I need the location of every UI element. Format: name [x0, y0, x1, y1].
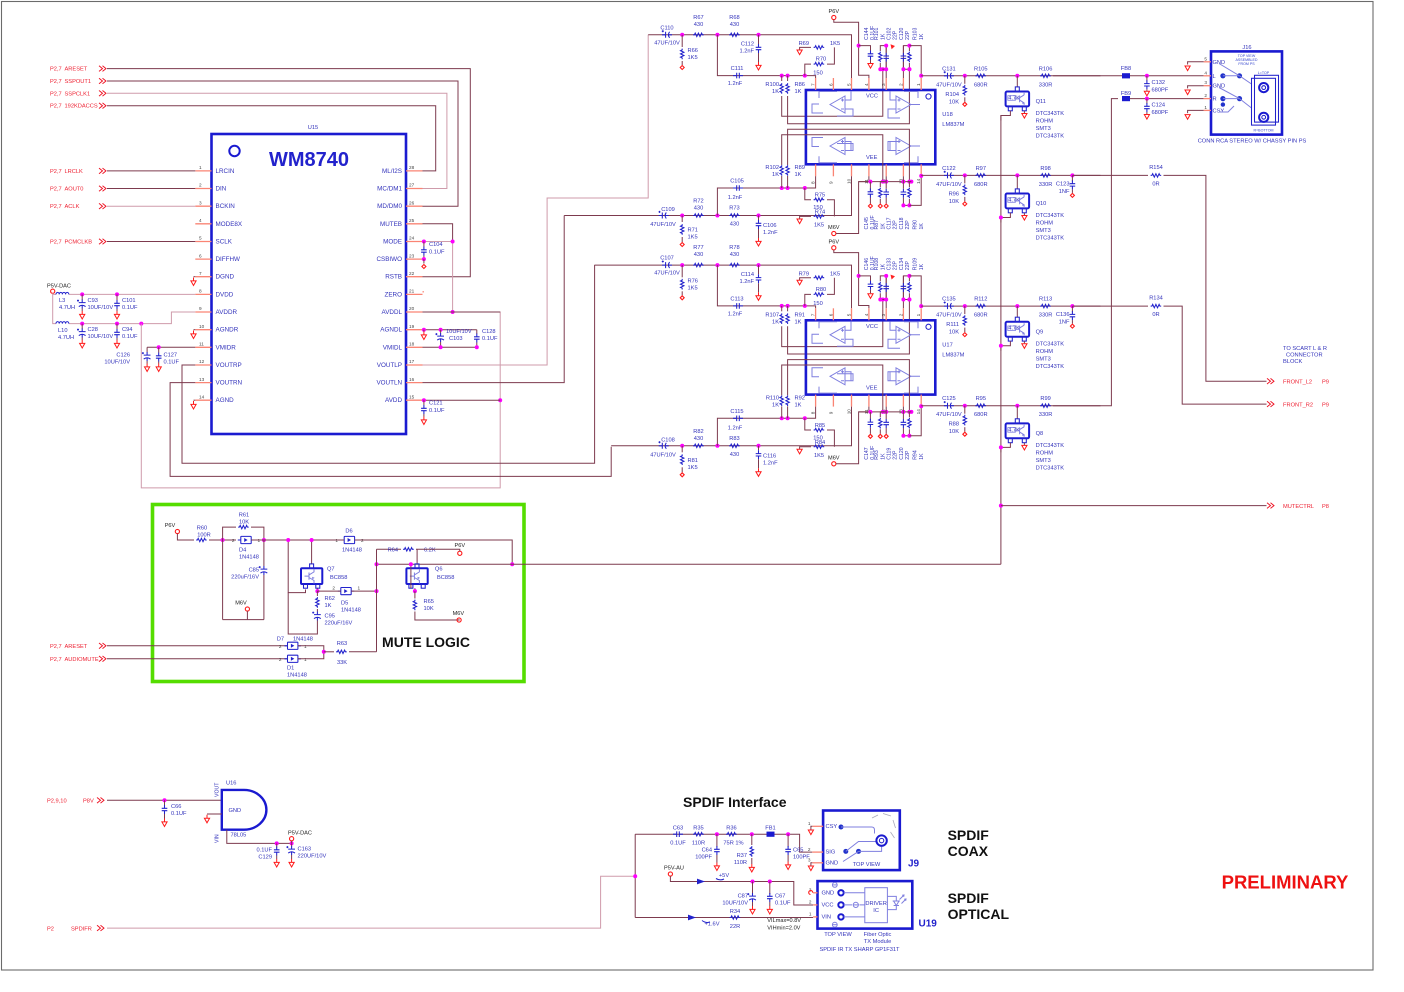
capacitor C125 47UF/10V [944, 403, 954, 409]
resistor R88 10K [964, 406, 966, 414]
svg-text:R82: R82 [693, 429, 703, 435]
svg-text:VEE: VEE [866, 155, 878, 161]
svg-text:MC/DM1: MC/DM1 [377, 186, 402, 193]
resistor R97 680R [975, 174, 986, 177]
svg-text:1K: 1K [772, 402, 779, 408]
svg-text:VILmax=0.8V: VILmax=0.8V [767, 918, 801, 924]
junction [757, 214, 761, 218]
transistor Q9 DTC343TK [1016, 306, 1018, 317]
svg-text:680R: 680R [974, 412, 988, 418]
wire ACLK to U15 [107, 205, 195, 207]
svg-text:14: 14 [916, 409, 921, 415]
svg-text:1: 1 [808, 821, 811, 826]
svg-text:P5V-DAC: P5V-DAC [47, 284, 71, 290]
svg-text:7: 7 [199, 271, 202, 276]
resistor R86 1K [787, 76, 789, 81]
wire VOUTRP pin12 to C107 network [182, 265, 595, 463]
svg-text:R104: R104 [945, 92, 959, 98]
junction [680, 263, 684, 267]
svg-text:1: 1 [916, 83, 921, 86]
svg-text:680R: 680R [974, 82, 988, 88]
svg-text:10K: 10K [949, 429, 959, 435]
resistor R72 430 [693, 214, 704, 217]
diode D5 1N4148 [341, 588, 351, 595]
capacitor C67 0.1UF [769, 882, 771, 895]
junction [80, 292, 84, 296]
svg-text:0.1UF: 0.1UF [164, 360, 180, 366]
svg-text:47UF/10V: 47UF/10V [936, 82, 962, 88]
capacitor C147 0.1UF [868, 410, 872, 414]
svg-text:R98: R98 [1040, 166, 1050, 172]
svg-text:TOP VIEW: TOP VIEW [824, 932, 852, 938]
J9 RCA jack [876, 835, 886, 845]
svg-text:R90: R90 [912, 220, 918, 230]
ground arrow AGND pin14 [194, 399, 196, 401]
capacitor C106 1.2nF [758, 216, 760, 221]
svg-text:6: 6 [828, 313, 833, 316]
svg-text:2: 2 [332, 586, 335, 591]
svg-text:R100: R100 [765, 82, 779, 88]
capacitor C107 47UF/10V [662, 262, 672, 268]
svg-text:R111: R111 [946, 322, 959, 328]
svg-text:LRCIN: LRCIN [216, 168, 235, 175]
J16 internal contacts [1220, 73, 1225, 78]
Q10 emitter ground arrow [1023, 213, 1025, 215]
resistor R35 110R [693, 833, 704, 836]
capacitor C129 0.1UF [276, 843, 278, 847]
svg-text:VCC: VCC [866, 324, 878, 330]
resistor R101 1K with capacitor C102 22P (pin3 feedback) [880, 46, 886, 78]
svg-text:DGND: DGND [216, 274, 235, 281]
svg-text:24: 24 [409, 236, 415, 241]
junction [715, 214, 719, 218]
junction [115, 292, 119, 296]
svg-text:C134: C134 [899, 258, 905, 271]
wire ARESET to D7 [107, 645, 288, 647]
svg-text:1K: 1K [919, 33, 925, 40]
capacitor C134 22P with resistor R109 1K (pin2 feedback) [903, 276, 909, 308]
wire Q6 collector to mute line [410, 564, 412, 588]
svg-text:TOP VIEW: TOP VIEW [853, 862, 881, 868]
svg-text:1: 1 [916, 313, 921, 316]
J16 RCA jack L [1259, 83, 1268, 92]
svg-text:LRCLK: LRCLK [65, 169, 84, 175]
capacitor C123 1NF [1071, 175, 1073, 181]
svg-text:22R: 22R [730, 924, 740, 930]
svg-text:R134: R134 [1149, 296, 1163, 302]
U17 pin 2 stub [902, 308, 904, 320]
svg-text:U17: U17 [942, 342, 952, 348]
svg-text:R103: R103 [912, 27, 918, 40]
svg-text:P6V: P6V [455, 543, 466, 549]
svg-text:47UF/10V: 47UF/10V [654, 40, 680, 46]
svg-text:R62: R62 [325, 596, 335, 602]
svg-text:330R: 330R [1039, 182, 1053, 188]
svg-text:MUTEB: MUTEB [380, 221, 402, 228]
svg-text:C106: C106 [763, 223, 777, 229]
svg-text:0.1UF: 0.1UF [482, 336, 498, 342]
svg-text:P9: P9 [1322, 402, 1329, 408]
svg-text:FRONT_L2: FRONT_L2 [1283, 379, 1312, 385]
op-amp C triangle [830, 368, 845, 385]
U15 pin 8 DVDD [195, 293, 211, 295]
svg-text:1.2nF: 1.2nF [763, 460, 778, 466]
svg-text:1: 1 [304, 644, 307, 649]
svg-text:1.2nF: 1.2nF [739, 279, 754, 285]
svg-text:ARESET: ARESET [65, 644, 88, 650]
svg-text:22P: 22P [892, 450, 898, 460]
svg-text:2: 2 [898, 83, 903, 86]
J9 pin 3 GND [812, 862, 823, 864]
J9 pin1 ground hook [811, 826, 812, 829]
U17 pin 14 stub [920, 395, 922, 407]
svg-text:R35: R35 [693, 826, 703, 832]
svg-text:VMIDL: VMIDL [383, 344, 403, 351]
svg-text:10: 10 [199, 324, 205, 329]
transistor Q10 DTC343TK [1016, 175, 1018, 189]
U18 pin 5 stub [851, 78, 853, 90]
svg-text:330R: 330R [1039, 313, 1053, 319]
svg-text:Fiber Optic: Fiber Optic [864, 932, 892, 938]
svg-text:16: 16 [409, 377, 415, 382]
U17 pin 6 stub [832, 308, 834, 320]
wire AVDD return rail [141, 312, 500, 488]
svg-text:2: 2 [808, 847, 811, 852]
svg-text:R154: R154 [1149, 165, 1163, 171]
svg-text:VOUT: VOUT [214, 782, 220, 797]
svg-text:P2,7: P2,7 [50, 67, 62, 73]
junction [498, 398, 502, 402]
svg-text:J9: J9 [908, 859, 920, 870]
svg-text:GND: GND [826, 860, 839, 866]
svg-text:M6V: M6V [828, 455, 840, 461]
inductor L3 4.7UH [56, 292, 69, 294]
svg-text:R79: R79 [799, 271, 809, 277]
U15 pin 19 AGNDL [406, 329, 423, 331]
svg-text:AGND: AGND [216, 397, 235, 404]
svg-text:U19: U19 [919, 919, 938, 930]
wire CSBIWO pin23 [423, 258, 424, 260]
svg-text:P2,7: P2,7 [50, 644, 62, 650]
U15 pin 13 VOUTRN [195, 382, 211, 384]
svg-text:0.1UF: 0.1UF [429, 408, 445, 414]
resistor R63 33K [324, 651, 334, 653]
U17 pin 11 stub [868, 395, 870, 407]
svg-text:R: R [1213, 97, 1217, 103]
U17 pin 9 stub [832, 395, 834, 407]
wire R63 riser [376, 549, 378, 652]
wire R154 to FRONT_L2 [1164, 175, 1267, 381]
resistor R108 1K with capacitor C133 22P (pin3 feedback) [880, 276, 886, 308]
capacitor C132 680PF [1146, 76, 1148, 82]
svg-text:D6: D6 [345, 529, 352, 535]
svg-text:C121: C121 [429, 401, 443, 407]
junction [963, 304, 967, 308]
svg-text:1.2nF: 1.2nF [763, 230, 778, 236]
junction [963, 173, 967, 177]
capacitor C120 22P with resistor R103 1K (pin2 feedback) [903, 46, 909, 78]
svg-text:RSTB: RSTB [385, 274, 402, 281]
wire SSPCLK1 to MC/DM1 pin27 [107, 93, 447, 188]
svg-text:430: 430 [694, 436, 704, 442]
svg-text:25: 25 [409, 218, 415, 223]
J16 pin 4 L [1204, 75, 1211, 77]
svg-text:C65: C65 [793, 848, 803, 854]
svg-text:R83: R83 [729, 436, 739, 442]
U18 pin 10 stub [851, 164, 853, 176]
Q11 base wire to mute bus [1001, 111, 1011, 121]
svg-text:R106: R106 [1039, 66, 1053, 72]
transistor Q8 DTC343TK [1016, 406, 1018, 419]
resistor R78 430 [729, 263, 740, 266]
svg-text:C102: C102 [886, 27, 892, 40]
svg-text:C63: C63 [673, 826, 683, 832]
svg-text:1.2nF: 1.2nF [728, 195, 743, 201]
svg-text:22: 22 [409, 271, 415, 276]
svg-text:P2,7: P2,7 [50, 91, 62, 97]
svg-text:P5V-DAC: P5V-DAC [288, 831, 312, 837]
junction [963, 74, 967, 78]
svg-text:9: 9 [828, 411, 833, 414]
capacitor C121 0.1UF [423, 400, 425, 405]
capacitor C115 1.2nF [733, 416, 743, 422]
capacitor C87 10UF/10V [752, 882, 754, 894]
junction [963, 404, 967, 408]
svg-text:2: 2 [809, 900, 812, 905]
svg-text:C116: C116 [763, 453, 776, 459]
U15 pin 22 RSTB [406, 276, 423, 278]
U17 pin 4 stub [868, 308, 870, 320]
svg-text:47UF/10V: 47UF/10V [654, 271, 680, 277]
U15 pin 9 AVDDR [195, 311, 211, 313]
svg-text:MUTECTRL: MUTECTRL [1283, 504, 1314, 510]
U18 pin 13 stub [902, 164, 904, 176]
svg-text:10UF/10V: 10UF/10V [722, 901, 748, 907]
capacitor C95 220uF/16V [314, 612, 321, 621]
svg-text:2: 2 [279, 657, 282, 662]
wire P5V-DAC rail DVDD [53, 293, 56, 294]
svg-text:1: 1 [358, 586, 361, 591]
svg-text:C110: C110 [660, 25, 673, 31]
svg-text:SPDIF: SPDIF [948, 890, 990, 906]
svg-text:430: 430 [730, 252, 740, 258]
svg-text:CSY: CSY [826, 824, 838, 830]
svg-text:C28: C28 [88, 327, 98, 333]
svg-text:1: 1 [304, 657, 307, 662]
svg-text:4.7UH: 4.7UH [59, 305, 75, 311]
resistor R73 430 [729, 214, 740, 217]
svg-text:Q10: Q10 [1036, 201, 1047, 207]
svg-text:D7: D7 [277, 637, 284, 643]
wire R61 node down [222, 540, 224, 620]
svg-text:R89: R89 [795, 165, 805, 171]
svg-text:1K5: 1K5 [830, 41, 840, 47]
wire rail1 to FB8 [1053, 75, 1122, 77]
op-amp B triangle [896, 96, 911, 113]
svg-text:BCKIN: BCKIN [216, 203, 236, 210]
resistor R107 1K [781, 306, 783, 311]
svg-text:6: 6 [199, 253, 202, 258]
svg-text:SPDIF: SPDIF [948, 827, 990, 843]
svg-text:100R: 100R [197, 533, 211, 539]
svg-text:18: 18 [409, 342, 415, 347]
svg-text:R78: R78 [729, 245, 739, 251]
svg-text:100PF: 100PF [695, 855, 712, 861]
svg-text:430: 430 [694, 22, 704, 28]
signal arrow +5V [697, 879, 705, 885]
U15 pin 7 DGND [195, 276, 211, 278]
resistor R66 1K5 [681, 35, 683, 47]
svg-text:DTC343TK: DTC343TK [1036, 341, 1065, 347]
svg-text:R92: R92 [795, 395, 805, 401]
svg-text:L=TOP: L=TOP [1258, 71, 1270, 75]
svg-text:R81: R81 [688, 458, 698, 464]
svg-text:10UF/10V: 10UF/10V [88, 334, 114, 340]
svg-text:C127: C127 [164, 353, 178, 359]
U15 pin 2 DIN [195, 188, 211, 190]
svg-text:ROHM: ROHM [1036, 221, 1054, 227]
svg-text:C122: C122 [942, 166, 956, 172]
U18 pin 7 stub [815, 78, 817, 90]
svg-text:C129: C129 [258, 855, 272, 861]
svg-text:R110: R110 [766, 395, 779, 401]
svg-text:C64: C64 [702, 848, 712, 854]
U19 pin3 hook [809, 891, 813, 895]
svg-text:VOUTLN: VOUTLN [376, 380, 402, 387]
svg-text:8: 8 [199, 289, 202, 294]
svg-text:33K: 33K [337, 660, 347, 666]
svg-text:0.1UF: 0.1UF [429, 250, 445, 256]
junction [680, 214, 684, 218]
svg-text:P5V-AU: P5V-AU [664, 866, 684, 872]
svg-text:4: 4 [864, 83, 869, 86]
capacitor C120 22P with resistor R94 1K (pin13 feedback) [901, 410, 905, 414]
svg-text:C66: C66 [171, 804, 181, 810]
svg-text:22P: 22P [892, 220, 898, 230]
svg-text:15: 15 [409, 394, 415, 399]
junction [715, 263, 719, 267]
svg-text:C117: C117 [886, 217, 892, 229]
svg-text:330R: 330R [1039, 412, 1053, 418]
svg-text:C103: C103 [449, 336, 463, 342]
U18 pin 3 stub [885, 78, 887, 90]
capacitor C128 0.1UF [476, 330, 478, 334]
svg-text:4: 4 [199, 218, 202, 223]
svg-text:GND: GND [229, 808, 242, 814]
svg-text:P9: P9 [1322, 379, 1329, 385]
capacitor C109 47UF/10V [659, 213, 669, 219]
capacitor C28 10UF/10V [81, 324, 83, 329]
svg-text:680PF: 680PF [1152, 87, 1169, 93]
U18 pin 4 stub [868, 78, 870, 90]
U16 ground arrow [207, 813, 222, 815]
resistor R69 1K5 [814, 46, 825, 49]
svg-text:SPDIF IR TX SHARP GP1F31T: SPDIF IR TX SHARP GP1F31T [819, 947, 900, 953]
wire VMIDL pin18 [423, 346, 477, 348]
svg-text:R102: R102 [765, 165, 779, 171]
svg-text:10K: 10K [949, 199, 959, 205]
diode D1 1N4148 [288, 655, 298, 662]
transistor Q11 DTC343TK [1016, 76, 1018, 87]
svg-text:C67: C67 [775, 894, 785, 900]
svg-text:C95: C95 [325, 614, 335, 620]
wire line to pin8 (C115) [717, 407, 815, 446]
U19 pin 2 VCC [813, 904, 817, 906]
junction [157, 345, 161, 349]
capacitor C63 0.1UF [673, 831, 683, 837]
svg-text:P2: P2 [47, 926, 54, 932]
svg-text:DTC343TK: DTC343TK [1036, 213, 1065, 219]
svg-text:OPTICAL: OPTICAL [948, 906, 1010, 922]
svg-text:1N4148: 1N4148 [342, 548, 362, 554]
U18 pin 6 stub [832, 78, 834, 90]
svg-text:20: 20 [409, 306, 415, 311]
resistor R80 150 [805, 294, 811, 306]
wire input chain top (C107) [595, 265, 852, 308]
op-amp A triangle [830, 326, 845, 343]
resistor R89 1K [787, 176, 789, 188]
U18 pin 9 stub [832, 164, 834, 176]
svg-text:GND: GND [1213, 84, 1226, 90]
svg-text:1K: 1K [795, 89, 802, 95]
svg-text:10UF/10V: 10UF/10V [88, 305, 114, 311]
junction [715, 33, 719, 37]
svg-text:C111: C111 [731, 66, 744, 72]
svg-text:C107: C107 [660, 256, 674, 262]
svg-text:DVDD: DVDD [216, 291, 234, 298]
svg-text:DTC343TK: DTC343TK [1036, 465, 1065, 471]
svg-text:R87: R87 [874, 220, 880, 230]
capacitor C126 10UF/10V [146, 347, 148, 352]
svg-text:150: 150 [813, 71, 823, 77]
wire PCMCLKB to U15 [107, 241, 195, 243]
svg-text:680R: 680R [974, 313, 988, 319]
svg-text:1K5: 1K5 [688, 55, 698, 61]
svg-text:430: 430 [694, 252, 704, 258]
svg-text:C108: C108 [661, 437, 675, 443]
junction [1015, 304, 1019, 308]
svg-text:0.1UF: 0.1UF [257, 848, 273, 854]
junction [786, 832, 790, 836]
wire +5V line [670, 876, 813, 905]
J9 pin3 ground hook [811, 863, 812, 866]
svg-text:FB1: FB1 [765, 826, 775, 832]
wire AGNDL pin19 [423, 329, 477, 331]
resistor R70 150 [805, 64, 811, 76]
svg-text:C94: C94 [122, 327, 132, 333]
svg-text:10K: 10K [239, 520, 249, 526]
wire D5 [317, 590, 340, 592]
svg-text:TO SCART L & R: TO SCART L & R [1283, 346, 1327, 352]
resistor R93 1K with capacitor C119 22P (pin12 feedback) [884, 410, 888, 414]
svg-text:LM837M: LM837M [942, 122, 964, 128]
svg-text:U16: U16 [226, 781, 236, 787]
resistor R98 330R [1040, 174, 1051, 177]
junction [780, 74, 784, 78]
resistor R105 680R [975, 74, 986, 77]
U19 pin 3 GND [813, 892, 817, 894]
svg-text:AVDDR: AVDDR [216, 309, 238, 316]
junction [715, 444, 719, 448]
svg-text:5: 5 [1204, 56, 1207, 61]
wire line to pin8 (C105) [717, 176, 815, 215]
svg-text:DRIVER: DRIVER [865, 901, 887, 907]
svg-text:C120: C120 [899, 447, 905, 460]
J16 pin1 ground [1188, 110, 1204, 113]
svg-text:1K: 1K [919, 223, 925, 230]
svg-text:WM8740: WM8740 [269, 149, 349, 171]
svg-text:22P: 22P [892, 261, 898, 271]
